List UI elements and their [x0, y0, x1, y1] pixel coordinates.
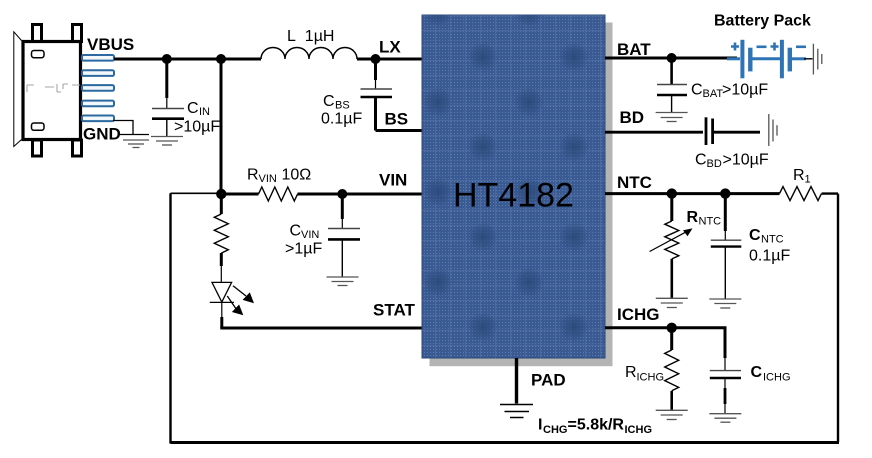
svg-text:1: 1: [805, 174, 811, 186]
wire ICHG row: [605, 328, 725, 358]
wire VBUS row: [114, 58, 261, 61]
svg-text:BD: BD: [707, 158, 722, 170]
resistor RICHG: [665, 328, 679, 410]
svg-text:BS: BS: [385, 110, 409, 129]
svg-text:R: R: [687, 209, 699, 226]
svg-text:IN: IN: [199, 106, 210, 118]
ground PAD: [500, 405, 533, 418]
USB pin 5 (GND): [82, 116, 114, 122]
svg-text:C: C: [323, 93, 335, 110]
svg-text:NTC: NTC: [761, 234, 784, 246]
svg-text:>1µF: >1µF: [285, 241, 322, 258]
svg-text:VBUS: VBUS: [87, 35, 134, 54]
wire GND net from pin5: [113, 121, 149, 135]
svg-text:>10µF: >10µF: [723, 152, 769, 169]
junction VBUS/VIN branch: [216, 54, 226, 64]
capacitor CICHG: [710, 358, 741, 414]
capacitor CBD: [706, 117, 760, 145]
junction VBUS/CIN: [162, 54, 172, 64]
svg-text:10Ω: 10Ω: [282, 167, 312, 184]
svg-text:R: R: [625, 364, 637, 381]
junction VIN/CVIN: [337, 189, 347, 199]
resistor R1: [780, 187, 822, 201]
svg-text:ICHG: ICHG: [763, 372, 791, 384]
svg-text:VIN: VIN: [301, 229, 319, 241]
svg-text:>10µF: >10µF: [722, 82, 768, 99]
svg-text:C: C: [187, 100, 199, 117]
thermistor RNTC: [650, 194, 693, 298]
junction BAT/CBAT: [667, 53, 677, 63]
capacitor CNTC: [711, 194, 742, 299]
wire R1 to loop corner: [822, 192, 838, 194]
svg-text:C: C: [749, 227, 761, 244]
capacitor CIN: [152, 59, 184, 136]
wire BD row: [605, 131, 703, 134]
svg-text:NTC: NTC: [617, 173, 652, 192]
svg-text:ICHG: ICHG: [625, 424, 653, 436]
svg-text:VIN: VIN: [259, 173, 277, 185]
svg-text:=5.8k/R: =5.8k/R: [568, 417, 625, 434]
wire VIN row left: [221, 193, 259, 196]
junction LX: [371, 54, 381, 64]
ground CNTC: [709, 299, 741, 308]
inductor L 1uH: [261, 48, 357, 59]
wire loop top link: [171, 192, 222, 194]
ground CVIN: [327, 277, 359, 286]
capacitor CBAT: [657, 58, 687, 112]
junction ICHG: [667, 323, 677, 333]
wire BAT row: [605, 57, 737, 60]
svg-text:C: C: [751, 364, 763, 381]
svg-text:R: R: [247, 167, 259, 184]
svg-text:CHG: CHG: [543, 424, 567, 436]
capacitor CVIN: [328, 194, 360, 277]
svg-text:0.1µF: 0.1µF: [321, 111, 362, 128]
ground CBAT: [656, 113, 688, 122]
USB pin 1 (VBUS): [82, 55, 114, 61]
svg-text:STAT: STAT: [373, 301, 415, 320]
svg-text:I: I: [538, 417, 542, 434]
IC U1 shadow: [605, 23, 613, 367]
ground CICHG: [709, 414, 741, 423]
svg-text:VIN: VIN: [379, 171, 407, 190]
IC U1 HT4182 body: [422, 15, 605, 358]
ground RICHG: [656, 410, 688, 419]
PAD pin wire: [515, 358, 518, 404]
svg-text:NTC: NTC: [699, 216, 722, 228]
LED D1: [210, 282, 254, 328]
formula ICHG=5.8k/RICHG: [538, 417, 652, 437]
ground RNTC: [656, 298, 688, 307]
svg-text:HT4182: HT4182: [453, 177, 574, 215]
ground GND net: [123, 140, 149, 148]
capacitor CBS: [361, 59, 393, 131]
wire VBUS down to VIN: [220, 59, 223, 194]
svg-text:ICHG: ICHG: [637, 372, 665, 384]
resistor for LED: [214, 194, 228, 282]
svg-text:BAT: BAT: [703, 88, 724, 100]
ground CBD (rotated): [769, 114, 777, 146]
ground battery (rotated): [813, 44, 821, 75]
junction NTC/RNTC: [667, 188, 677, 198]
wire BS row: [376, 129, 424, 132]
junction NTC/CNTC: [720, 188, 730, 198]
svg-text:L 1µH: L 1µH: [287, 28, 334, 45]
ground CIN: [151, 137, 183, 146]
wire VIN row right: [298, 193, 424, 196]
svg-text:C: C: [691, 82, 703, 99]
USB pin 3: [82, 85, 114, 91]
svg-text:GND: GND: [83, 125, 121, 144]
resistor RVIN: [259, 187, 298, 201]
USB pin 4: [82, 101, 114, 107]
wire NTC row: [605, 192, 780, 195]
svg-text:C: C: [290, 223, 302, 240]
wire battery to ground: [804, 58, 813, 60]
battery pack BT1: [727, 40, 806, 79]
svg-text:C: C: [695, 152, 707, 169]
svg-text:ICHG: ICHG: [617, 305, 660, 324]
svg-text:BAT: BAT: [617, 40, 651, 59]
wire loop left vertical: [169, 193, 171, 443]
svg-text:>10µF: >10µF: [174, 119, 220, 136]
wire STAT row: [220, 327, 423, 330]
wire LX row: [357, 58, 423, 61]
USB pin 2: [82, 70, 114, 76]
svg-text:LX: LX: [379, 38, 401, 57]
svg-text:R: R: [793, 167, 805, 184]
svg-text:PAD: PAD: [531, 371, 566, 390]
junction VIN/LED: [216, 189, 226, 199]
wire loop right vertical: [837, 194, 839, 442]
USB connector J1 body: [14, 25, 82, 157]
svg-text:0.1µF: 0.1µF: [749, 248, 790, 265]
svg-text:Battery Pack: Battery Pack: [714, 13, 811, 30]
svg-text:BD: BD: [620, 108, 645, 127]
wire loop bottom: [171, 441, 840, 444]
